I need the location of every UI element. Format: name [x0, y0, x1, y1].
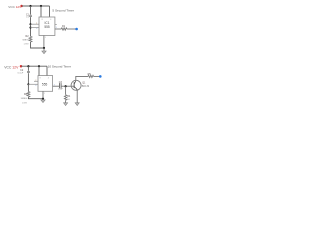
wire: rail corner down to 555 top pin right [46, 66, 48, 75]
node: ground junction (43,98.7) [42, 98, 44, 100]
capacitor C3 (series, vertical plates) [58, 81, 64, 91]
svg-text:4: 4 [50, 19, 51, 21]
wire: rail corner down to IC1 top pin right [49, 6, 51, 17]
wire: riser rail to 555 top pin left [38, 66, 40, 75]
capacitor C1 [26, 13, 32, 18]
VCC terminal dot (red, bottom) [20, 65, 23, 68]
svg-text:5MEG: 5MEG [22, 40, 28, 42]
node: rail junction to C2 branch [27, 65, 29, 67]
wire: emitter lead down [76, 90, 78, 103]
wire: R4 down to ground [65, 100, 67, 103]
svg-text:1: 1 [45, 37, 46, 39]
svg-text:VCC 12V: VCC 12V [8, 5, 22, 9]
svg-text:6: 6 [36, 28, 37, 30]
node: junction at 555 lower-left pin [27, 83, 29, 85]
wire: stub to IC1 left pin upper [31, 23, 40, 25]
node: junction to pin stub lower (30.5,27.6) [29, 27, 31, 29]
net label VCC 12V (bottom) [4, 65, 19, 69]
wire: R5 to output terminal [94, 75, 101, 77]
svg-text:555: 555 [44, 25, 50, 29]
svg-text:VCC 12V: VCC 12V [4, 65, 19, 69]
resistor R5 (horizontal zigzag) [88, 73, 94, 78]
wire: R2 down to ground rail corner [31, 42, 45, 48]
wire: bottom VCC rail [21, 65, 47, 67]
svg-text:2: 2 [36, 23, 37, 25]
wire: stub to 555 left pin lower [28, 83, 38, 85]
resistor R1 (horizontal zigzag) [61, 25, 67, 30]
VCC terminal dot (red, top) [20, 5, 23, 8]
ground (under 555) [41, 99, 45, 103]
capacitor C2 [18, 69, 30, 74]
resistor R4 (vertical zigzag) [64, 86, 71, 101]
wire: riser rail to IC1 top pin left [40, 6, 42, 17]
output terminal dot (blue) [75, 28, 78, 31]
node: rail junction to pin8 riser [40, 5, 42, 7]
svg-text:8: 8 [40, 77, 41, 79]
wire: collector riser [76, 76, 88, 80]
node: junction to R4 branch [65, 85, 67, 87]
pin stub upper-left (unconnected) [34, 80, 38, 82]
wire: riser rail to C2 [27, 66, 29, 71]
svg-text:BD139: BD139 [82, 85, 90, 88]
svg-text:555: 555 [42, 83, 48, 87]
op: 555 box (bottom) [38, 76, 53, 92]
wire: IC1 pin3 to R1 [55, 28, 61, 30]
svg-text:10 Second Timer: 10 Second Timer [48, 65, 71, 69]
node: rail junction to pin8 riser (bottom) [38, 65, 40, 67]
svg-text:8: 8 [42, 19, 43, 21]
ground (emitter) [75, 103, 79, 106]
transistor Q1 [71, 80, 90, 90]
wire: R1 to output terminal [67, 28, 77, 30]
node: junction to pin stub upper (30.5,24.2) [29, 23, 31, 25]
svg-text:6: 6 [35, 85, 36, 87]
resistor R3 (vertical zigzag) [21, 84, 30, 104]
net label VCC 12V (top) [8, 5, 22, 9]
wire: C1 to trigger node [30, 17, 32, 36]
ground (top circuit) [42, 48, 46, 54]
wire: C3 to base node [62, 85, 75, 87]
wire: top VCC rail [22, 5, 50, 7]
svg-text:4: 4 [48, 77, 49, 79]
svg-text:5MEG: 5MEG [21, 98, 27, 100]
wire: R3 down to ground rail corner (bottom) [28, 97, 43, 99]
wire: IC1 pin1 down to ground [43, 36, 45, 49]
wire: 555 pin1 down to ground [42, 91, 44, 98]
op: IC1 555 box [39, 17, 55, 36]
svg-text:10uF: 10uF [58, 89, 64, 91]
output terminal dot (blue, bottom) [99, 75, 102, 78]
svg-text:0.1uF: 0.1uF [18, 72, 24, 74]
node: ground junction (44,48) [43, 47, 45, 49]
wire: riser rail to C1 [30, 6, 32, 15]
svg-text:1: 1 [44, 93, 45, 95]
wire: C2 to lower-left pin node [27, 73, 29, 84]
node: rail junction to C1 branch [29, 5, 31, 7]
wire: stub to IC1 left pin lower [31, 27, 40, 29]
ground (under R4) [64, 103, 68, 106]
svg-text:2: 2 [35, 80, 36, 82]
svg-text:5 Second Timer: 5 Second Timer [52, 8, 74, 12]
pin stub 7 (unconnected right) [55, 23, 57, 25]
resistor R2 (vertical zigzag) [22, 35, 32, 45]
wire: 555 pin3 to C3 [53, 85, 59, 87]
